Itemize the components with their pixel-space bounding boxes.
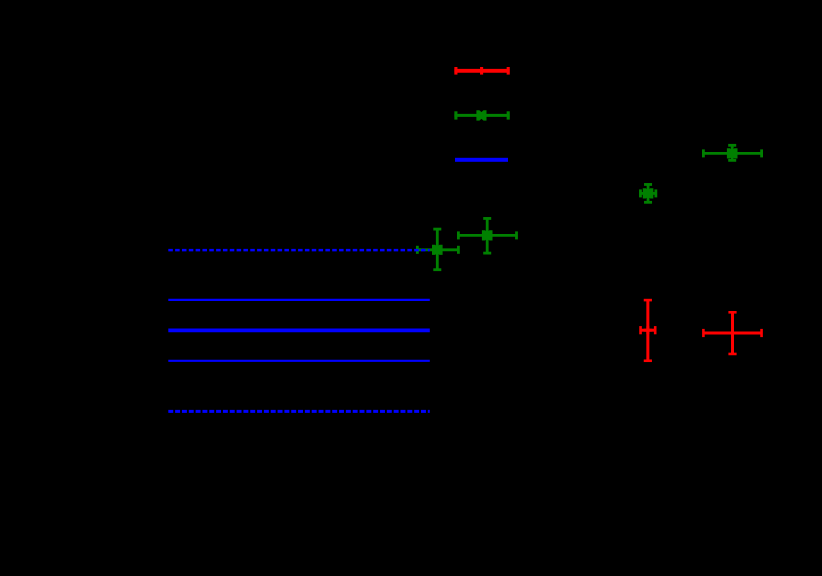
red data point 1 [641,300,656,361]
legend green errorbar sample [454,111,509,120]
green data point 3 [458,218,516,253]
green data point 1 [703,145,761,160]
legend red errorbar sample [454,67,509,75]
theory solid line lower [168,360,430,362]
theory central thick line [168,329,430,333]
legend blue theory line sample [455,158,508,162]
theory dashed line upper [168,249,430,252]
green data point 4 [417,229,458,270]
green data point 2 [640,184,655,202]
red data point 2 [703,312,761,354]
theory solid line upper [168,299,430,301]
theory dashed line lower [168,410,430,413]
